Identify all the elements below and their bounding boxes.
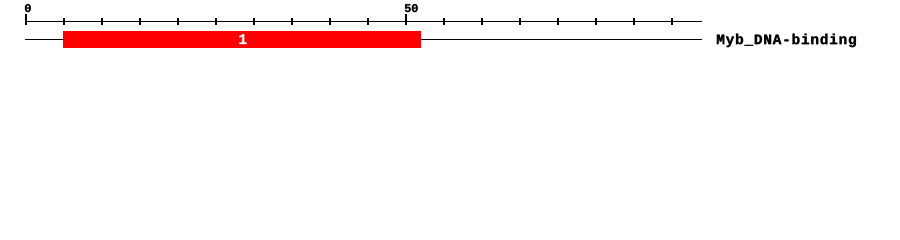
sequence line bbox=[25, 39, 702, 40]
domain box Myb_DNA-binding 1 bbox=[63, 31, 421, 48]
ruler minor tick 14 bbox=[595, 18, 597, 25]
ruler minor tick 12 bbox=[519, 18, 521, 25]
ruler minor tick 2 bbox=[101, 18, 103, 25]
ruler minor tick 1 bbox=[63, 18, 65, 25]
ruler minor tick 11 bbox=[481, 18, 483, 25]
ruler minor tick 15 bbox=[633, 18, 635, 25]
ruler label 50 bbox=[405, 4, 418, 12]
ruler minor tick 7 bbox=[291, 18, 293, 25]
domain name label Myb_DNA-binding bbox=[717, 34, 856, 47]
ruler minor tick 8 bbox=[329, 18, 331, 25]
background bbox=[0, 0, 900, 58]
ruler baseline bbox=[25, 21, 702, 22]
ruler minor tick 4 bbox=[177, 18, 179, 25]
ruler major tick 50 bbox=[405, 14, 407, 25]
ruler minor tick 5 bbox=[215, 18, 217, 25]
ruler major tick 0 bbox=[25, 14, 27, 25]
ruler minor tick 10 bbox=[443, 18, 445, 25]
ruler minor tick 3 bbox=[139, 18, 141, 25]
ruler minor tick 9 bbox=[367, 18, 369, 25]
ruler minor tick 6 bbox=[253, 18, 255, 25]
ruler label 0 bbox=[25, 4, 31, 12]
ruler minor tick 16 bbox=[671, 18, 673, 25]
protein domain graphic bbox=[0, 0, 900, 58]
ruler minor tick 13 bbox=[557, 18, 559, 25]
domain box number 1 bbox=[239, 34, 246, 44]
